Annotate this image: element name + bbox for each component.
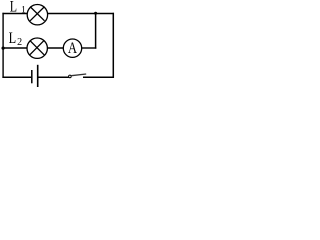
wire branch vertical up to junction: [95, 14, 97, 49]
node junction left: [1, 47, 4, 50]
wire middle-right segment: [82, 47, 97, 49]
wire middle segment L2 to A: [47, 47, 63, 49]
label L1: [10, 0, 26, 16]
wire left vertical: [2, 13, 4, 78]
svg-text:L: L: [9, 30, 17, 47]
wire top-left segment: [2, 13, 27, 15]
lamp L2: [27, 38, 47, 58]
wire bottom middle segment (switch to battery): [38, 76, 68, 78]
wire top-right segment: [48, 13, 115, 15]
wire right vertical: [112, 13, 114, 78]
label L2: [9, 30, 23, 48]
svg-text:A: A: [68, 40, 78, 57]
svg-text:2: 2: [17, 37, 22, 48]
lamp L1: [27, 5, 47, 25]
node junction top: [94, 12, 97, 15]
wire bottom-right segment: [83, 76, 114, 78]
ammeter A: [63, 39, 81, 57]
wire middle-left segment: [3, 47, 27, 49]
wire bottom-left segment: [2, 76, 31, 78]
battery: [32, 65, 38, 87]
switch S: [69, 74, 87, 78]
